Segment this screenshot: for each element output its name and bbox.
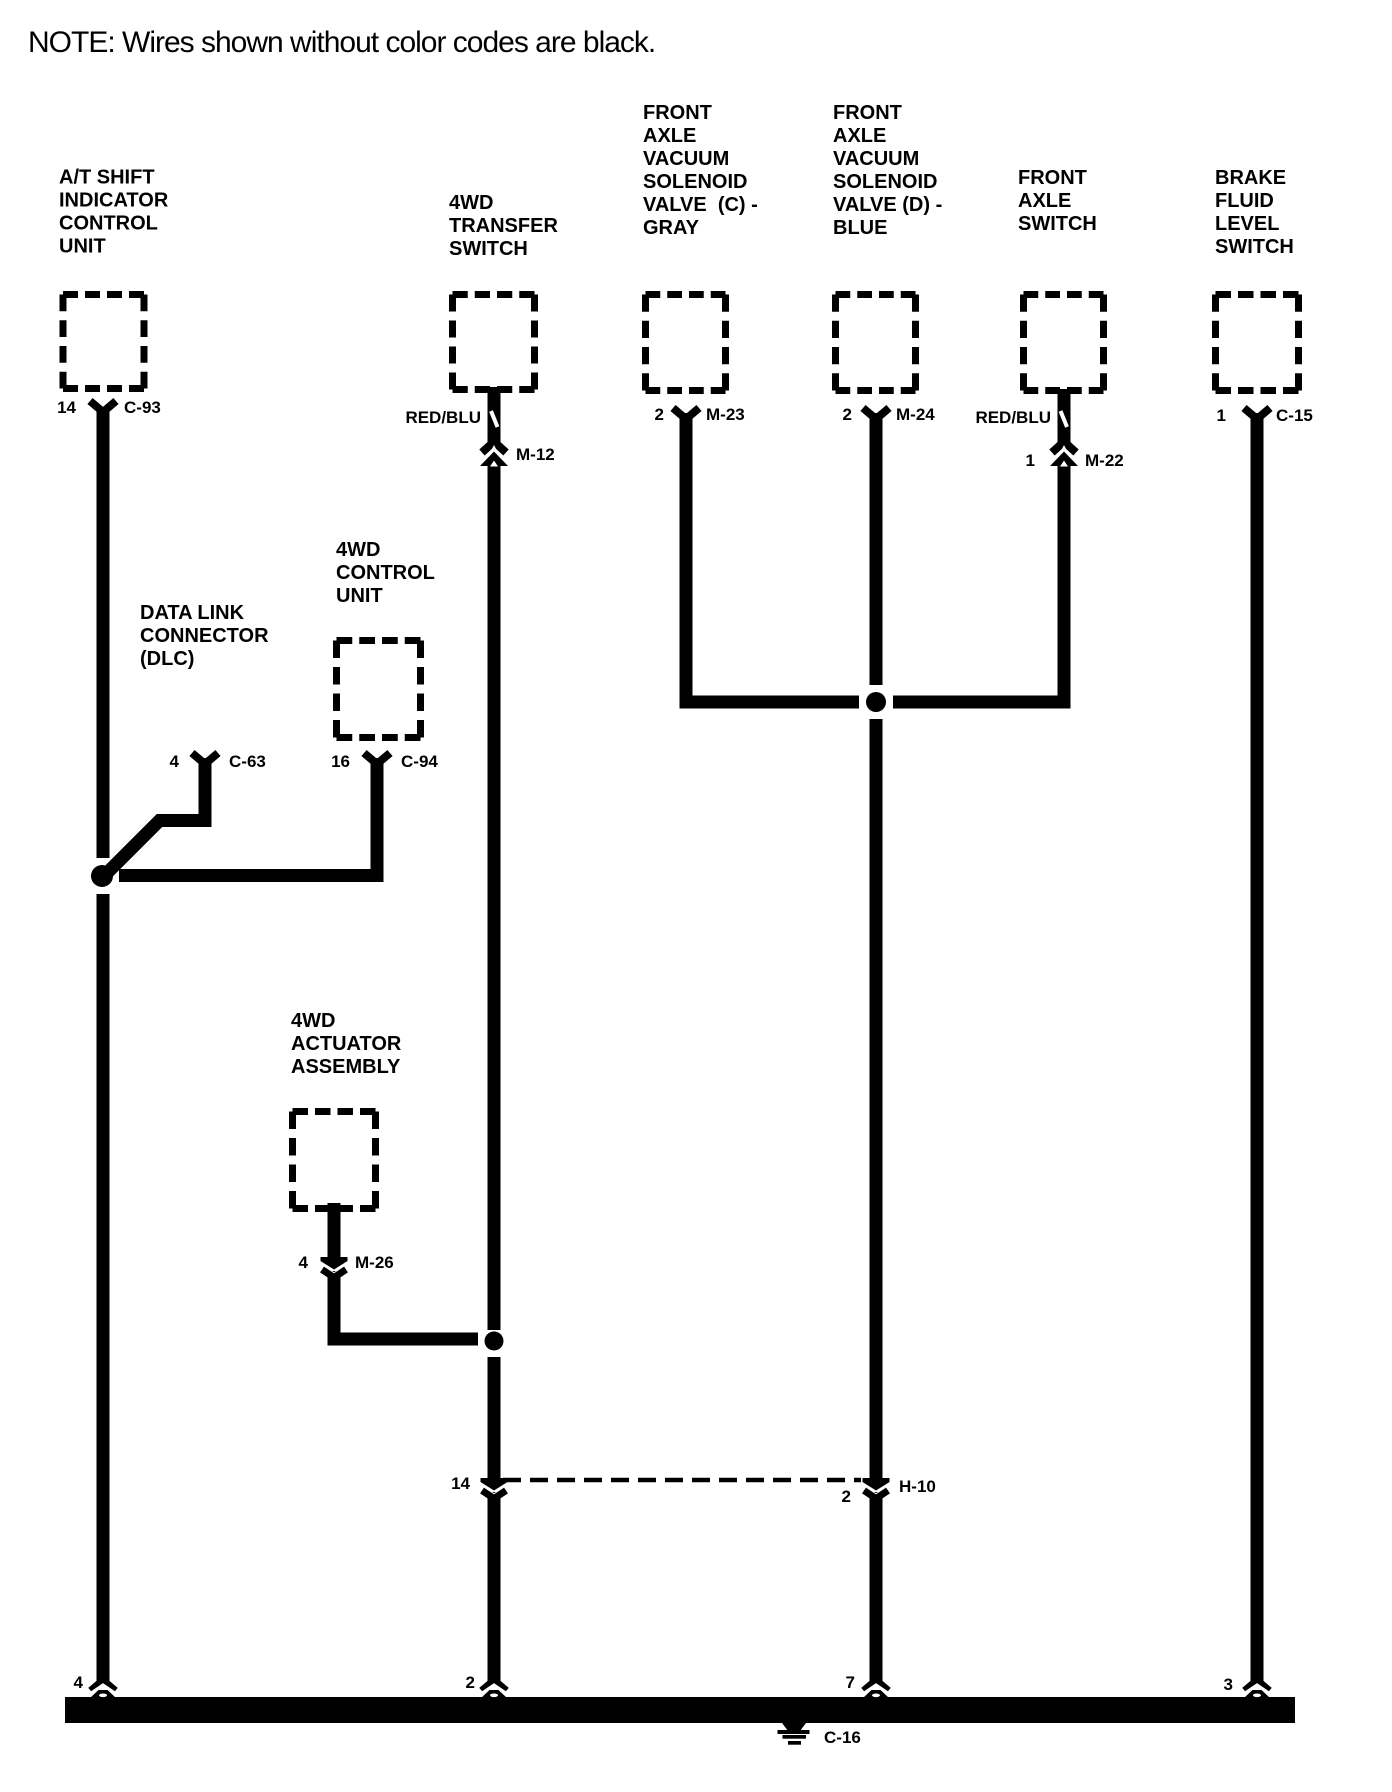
svg-text:1: 1 <box>1026 451 1035 470</box>
svg-text:C-63: C-63 <box>229 752 266 771</box>
svg-text:14: 14 <box>451 1474 470 1493</box>
svg-text:BLUE: BLUE <box>833 217 887 239</box>
svg-text:(DLC): (DLC) <box>140 648 194 670</box>
svg-text:4WD: 4WD <box>449 192 493 214</box>
svg-text:16: 16 <box>331 752 350 771</box>
svg-text:4: 4 <box>299 1253 309 1272</box>
svg-text:1: 1 <box>1217 406 1226 425</box>
svg-text:SOLENOID: SOLENOID <box>643 171 747 193</box>
svg-text:SWITCH: SWITCH <box>1018 213 1097 235</box>
svg-text:AXLE: AXLE <box>833 125 886 147</box>
svg-text:3: 3 <box>1224 1675 1233 1694</box>
svg-text:VALVE (C) -: VALVE (C) - <box>643 194 758 216</box>
svg-text:C-93: C-93 <box>124 398 161 417</box>
svg-text:NOTE: Wires shown without colo: NOTE: Wires shown without color codes ar… <box>28 26 655 59</box>
svg-text:H-10: H-10 <box>899 1477 936 1496</box>
svg-text:AXLE: AXLE <box>1018 190 1071 212</box>
svg-text:ASSEMBLY: ASSEMBLY <box>291 1056 401 1078</box>
svg-text:C-94: C-94 <box>401 752 438 771</box>
svg-text:M-26: M-26 <box>355 1253 394 1272</box>
svg-text:CONTROL: CONTROL <box>336 562 435 584</box>
svg-text:2: 2 <box>466 1673 475 1692</box>
svg-text:LEVEL: LEVEL <box>1215 213 1279 235</box>
svg-text:UNIT: UNIT <box>336 585 383 607</box>
svg-text:2: 2 <box>843 405 852 424</box>
svg-text:DATA LINK: DATA LINK <box>140 602 245 624</box>
svg-text:FRONT: FRONT <box>643 102 712 124</box>
svg-text:RED/BLU: RED/BLU <box>975 408 1051 427</box>
svg-text:C-15: C-15 <box>1276 406 1313 425</box>
svg-text:FRONT: FRONT <box>833 102 902 124</box>
svg-text:M-24: M-24 <box>896 405 935 424</box>
svg-text:SWITCH: SWITCH <box>1215 236 1294 258</box>
svg-text:4WD: 4WD <box>336 539 380 561</box>
svg-text:2: 2 <box>842 1487 851 1506</box>
svg-text:VALVE (D) -: VALVE (D) - <box>833 194 942 216</box>
svg-text:CONTROL: CONTROL <box>59 213 158 235</box>
svg-text:4: 4 <box>170 752 180 771</box>
svg-text:VACUUM: VACUUM <box>833 148 919 170</box>
svg-text:TRANSFER: TRANSFER <box>449 215 558 237</box>
svg-text:VACUUM: VACUUM <box>643 148 729 170</box>
svg-text:4: 4 <box>74 1673 84 1692</box>
svg-text:INDICATOR: INDICATOR <box>59 190 169 212</box>
svg-text:M-23: M-23 <box>706 405 745 424</box>
svg-text:C-16: C-16 <box>824 1728 861 1747</box>
svg-text:ACTUATOR: ACTUATOR <box>291 1033 402 1055</box>
svg-text:4WD: 4WD <box>291 1010 335 1032</box>
svg-text:A/T SHIFT: A/T SHIFT <box>59 167 155 189</box>
svg-text:CONNECTOR: CONNECTOR <box>140 625 269 647</box>
svg-text:AXLE: AXLE <box>643 125 696 147</box>
svg-text:2: 2 <box>655 405 664 424</box>
svg-text:RED/BLU: RED/BLU <box>405 408 481 427</box>
svg-text:14: 14 <box>57 398 76 417</box>
svg-text:SWITCH: SWITCH <box>449 238 528 260</box>
svg-text:BRAKE: BRAKE <box>1215 167 1286 189</box>
svg-text:GRAY: GRAY <box>643 217 700 239</box>
svg-text:M-12: M-12 <box>516 445 555 464</box>
svg-text:7: 7 <box>846 1673 855 1692</box>
svg-text:M-22: M-22 <box>1085 451 1124 470</box>
svg-text:SOLENOID: SOLENOID <box>833 171 937 193</box>
svg-text:UNIT: UNIT <box>59 236 106 258</box>
svg-text:FLUID: FLUID <box>1215 190 1274 212</box>
svg-text:FRONT: FRONT <box>1018 167 1087 189</box>
